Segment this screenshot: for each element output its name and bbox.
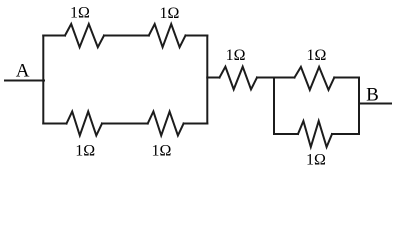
wire: middle node to R5 bbox=[207, 77, 219, 79]
resistor R7 (right parallel, bottom) bbox=[298, 121, 332, 147]
svg-text:1Ω: 1Ω bbox=[75, 143, 95, 160]
svg-text:1Ω: 1Ω bbox=[160, 5, 180, 22]
resistor R5 (series, middle) bbox=[220, 67, 258, 90]
svg-text:1Ω: 1Ω bbox=[307, 47, 327, 64]
wire: bottom rail middle segment bbox=[102, 123, 148, 125]
wire: top rail left segment bbox=[43, 35, 65, 37]
wire: top rail middle segment bbox=[104, 35, 149, 37]
wire: right-bottom branch lead-out bbox=[332, 133, 359, 135]
wire: right group right vertical bbox=[358, 78, 360, 135]
terminal A wire bbox=[5, 80, 44, 82]
wire: bottom rail left segment bbox=[43, 123, 66, 125]
wire: right group left vertical bbox=[273, 78, 275, 135]
wire: right-top branch lead-out bbox=[334, 77, 359, 79]
resistor R3 (bottom branch, left) bbox=[67, 112, 103, 136]
resistor R2 (top branch, right) bbox=[149, 24, 186, 47]
wire: R5 to right parallel group bbox=[257, 77, 274, 79]
svg-text:1Ω: 1Ω bbox=[306, 152, 326, 169]
svg-text:1Ω: 1Ω bbox=[152, 143, 172, 160]
wire: left vertical bus bbox=[42, 36, 44, 124]
wire: right-top branch lead-in bbox=[274, 77, 295, 79]
wire: middle vertical bus bbox=[206, 36, 208, 124]
svg-text:A: A bbox=[16, 61, 30, 82]
svg-text:1Ω: 1Ω bbox=[226, 47, 246, 64]
wire: top rail right segment bbox=[186, 35, 208, 37]
resistor R1 (top branch, left) bbox=[65, 24, 104, 47]
svg-text:1Ω: 1Ω bbox=[70, 5, 90, 22]
svg-text:B: B bbox=[366, 85, 379, 106]
wire: right-bottom branch lead-in bbox=[274, 133, 298, 135]
wire: bottom rail right segment bbox=[184, 123, 208, 125]
resistor R4 (bottom branch, right) bbox=[148, 112, 184, 136]
terminal B wire bbox=[359, 103, 391, 105]
resistor R6 (right parallel, top) bbox=[295, 67, 335, 90]
